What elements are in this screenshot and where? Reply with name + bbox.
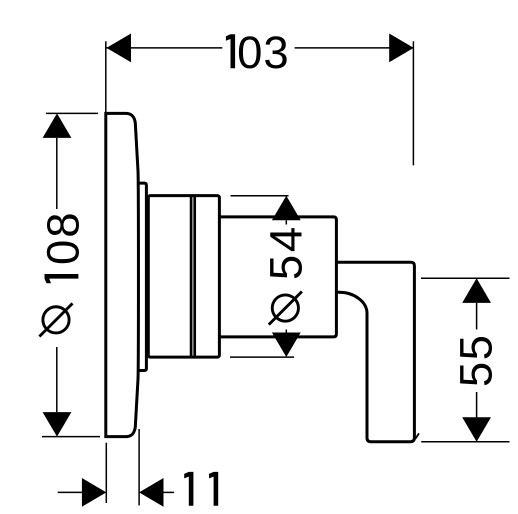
extension line right (138, 429, 140, 505)
svg-text:3: 3 (263, 27, 288, 78)
arrow 55 up (462, 278, 491, 303)
dim line lower (476, 392, 478, 418)
dim line upper (56, 138, 58, 209)
extension line top (421, 277, 510, 279)
extension line bottom (42, 436, 100, 438)
svg-text:8: 8 (37, 212, 88, 237)
arrow 108 up (43, 113, 72, 137)
extension line bottom (421, 441, 509, 443)
dimension 55 (right) (415, 278, 509, 442)
extension line left (wall plane) (105, 41, 107, 113)
arrow 55 down (462, 417, 491, 442)
svg-text:5: 5 (261, 255, 312, 280)
arrow 103 left (107, 34, 132, 63)
sleeve joint double line (191, 196, 195, 358)
svg-text:0: 0 (37, 240, 88, 265)
extension line left (105, 443, 107, 503)
sleeve (cartridge housing cylinder) (148, 196, 219, 358)
dim line 103 left segment (107, 47, 223, 49)
dimension diameter 54 (middle) (230, 196, 294, 357)
dimension diameter 108 (left) (42, 113, 100, 436)
arrow 108 down (43, 412, 72, 437)
arrow 11 right (points left) (139, 478, 163, 507)
label 103 (226, 27, 289, 78)
arrow 54 up (272, 196, 301, 221)
dim tail left (58, 491, 82, 493)
svg-text:5: 5 (450, 335, 501, 360)
dimension 11 (bottom) (58, 429, 174, 505)
dim tail right (164, 491, 175, 493)
extension line top (46, 112, 98, 114)
escutcheon plate (wall plate, side profile) (106, 113, 139, 436)
label 55 (rotated) (450, 335, 501, 387)
svg-text:0: 0 (237, 27, 262, 78)
dim line 103 right segment (295, 47, 414, 49)
extension line right (handle front) (412, 41, 414, 165)
svg-text:5: 5 (450, 362, 501, 387)
extension line bottom (230, 356, 294, 358)
dim line upper stub (285, 220, 287, 224)
collar ring behind sleeve (138, 183, 146, 370)
dim line upper (476, 303, 478, 330)
lever handle (336, 262, 414, 441)
label diameter 108 (rotated) (37, 212, 88, 336)
svg-text:4: 4 (261, 227, 312, 252)
arrow 103 right (389, 34, 414, 63)
dim line lower (56, 347, 58, 412)
label diameter 54 (rotated) (261, 227, 312, 325)
hub (handle base cylinder) (219, 217, 336, 337)
diagonal tick at handle corner (415, 433, 419, 439)
dimension 103 (top) (106, 41, 414, 165)
label 11 (184, 472, 218, 506)
extension line top (231, 195, 289, 197)
dim line lower stub (285, 330, 287, 334)
arrow 11 left (points right) (82, 478, 106, 507)
arrow 54 down (272, 333, 301, 358)
